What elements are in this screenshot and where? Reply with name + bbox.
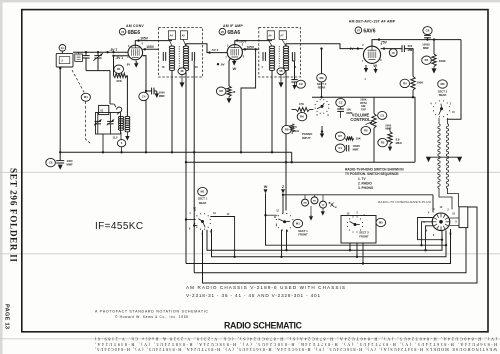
svg-text:M5: M5	[379, 221, 383, 225]
svg-text:5000: 5000	[159, 90, 165, 94]
svg-text:R6: R6	[300, 115, 304, 119]
svg-text:8V: 8V	[127, 63, 131, 67]
svg-text:1000: 1000	[67, 159, 73, 163]
svg-text:1A: 1A	[61, 47, 64, 50]
svg-text:.9V: .9V	[220, 63, 225, 67]
svg-text:6BE6: 6BE6	[128, 30, 141, 36]
svg-text:75V: 75V	[381, 41, 388, 45]
svg-text:3. PHONO: 3. PHONO	[358, 186, 374, 190]
svg-text:PAGE 13: PAGE 13	[4, 304, 10, 329]
svg-text:RADIO-TV INTERCHASSIS PLUG: RADIO-TV INTERCHASSIS PLUG	[378, 200, 432, 204]
svg-text:A PHOTOFACT STANDARD NOTATION: A PHOTOFACT STANDARD NOTATION SCHEMATIC	[95, 309, 208, 313]
svg-text:-5V 7: -5V 7	[110, 48, 118, 52]
svg-text:SET 296 FOLDER II: SET 296 FOLDER II	[9, 168, 19, 262]
svg-text:-5V 2: -5V 2	[211, 48, 219, 52]
svg-text:C6: C6	[49, 161, 53, 165]
svg-text:M3: M3	[319, 76, 323, 80]
svg-text:R5: R5	[364, 129, 368, 133]
svg-text:FRONT: FRONT	[359, 234, 369, 238]
svg-text:SECT 1: SECT 1	[298, 229, 308, 233]
svg-text:100K: 100K	[416, 81, 424, 85]
svg-text:1. TV: 1. TV	[358, 177, 366, 181]
svg-text:105V: 105V	[246, 45, 255, 49]
svg-text:2. RADIO: 2. RADIO	[358, 181, 372, 185]
svg-text:TV POSITION. SWITCH SEQUENCE: TV POSITION. SWITCH SEQUENCE:	[345, 172, 399, 176]
svg-text:W: W	[233, 67, 237, 71]
svg-text:10000: 10000	[422, 42, 430, 46]
svg-text:MMF: MMF	[67, 163, 73, 167]
svg-text:-5V 1: -5V 1	[115, 56, 123, 60]
svg-text:FRONT: FRONT	[298, 233, 308, 237]
svg-text:INPUT: INPUT	[302, 136, 311, 140]
svg-text:V-2318-31 - 35 - 41 - 45 AND V: V-2318-31 - 35 - 41 - 45 AND V-2328-301 …	[186, 293, 320, 298]
svg-text:11.5: 11.5	[112, 136, 118, 140]
svg-text:REAR: REAR	[199, 201, 207, 205]
svg-text:M1: M1	[84, 95, 88, 99]
svg-text:105V: 105V	[140, 36, 149, 40]
svg-text:MMF: MMF	[423, 46, 429, 50]
svg-text:6AV6: 6AV6	[363, 28, 375, 34]
svg-text:REAR: REAR	[439, 93, 447, 97]
svg-text:AM CONV: AM CONV	[126, 24, 144, 28]
svg-text:C3: C3	[380, 113, 384, 117]
svg-text:R7: R7	[338, 134, 342, 138]
svg-text:M1: M1	[296, 222, 300, 226]
svg-text:IF=455KC: IF=455KC	[95, 221, 144, 232]
svg-text:48: 48	[232, 90, 236, 94]
svg-text:SECT 1: SECT 1	[198, 197, 208, 201]
svg-text:5B: 5B	[279, 70, 282, 73]
svg-text:AM RADIO CHASSIS V-2189-6 USE: AM RADIO CHASSIS V-2189-6 USED WITH CHAS…	[186, 285, 345, 290]
svg-text:10K: 10K	[356, 136, 361, 140]
svg-text:AM IF AMP: AM IF AMP	[223, 24, 243, 28]
svg-text:105V: 105V	[239, 39, 248, 43]
svg-text:C6: C6	[426, 29, 430, 33]
svg-text:M3: M3	[440, 82, 444, 86]
svg-text:22K: 22K	[116, 79, 122, 83]
svg-text:C4: C4	[142, 94, 146, 98]
svg-text:330K: 330K	[439, 59, 447, 63]
svg-text:C9: C9	[299, 82, 303, 86]
svg-text:AM DET-AVC-1ST AF AMP: AM DET-AVC-1ST AF AMP	[349, 20, 396, 24]
svg-text:R2: R2	[381, 141, 385, 145]
svg-text:105V: 105V	[146, 45, 155, 49]
svg-text:R8: R8	[285, 128, 289, 132]
svg-text:© Howard W. Sams & Co., Inc.: © Howard W. Sams & Co., Inc. 1955	[115, 315, 188, 319]
svg-text:MEG: MEG	[396, 141, 402, 145]
svg-text:R4: R4	[403, 81, 407, 85]
svg-text:47K: 47K	[299, 102, 304, 106]
svg-text:R2: R2	[219, 89, 223, 93]
svg-text:CONTROL: CONTROL	[350, 117, 371, 122]
svg-text:3B: 3B	[180, 70, 183, 73]
svg-text:RADIO SCHEMATIC: RADIO SCHEMATIC	[224, 320, 303, 330]
svg-text:MMF: MMF	[385, 127, 391, 131]
svg-text:M1: M1	[200, 190, 204, 194]
svg-text:SECT 2: SECT 2	[359, 231, 369, 235]
svg-text:R1: R1	[117, 67, 121, 71]
svg-text:C2: C2	[339, 101, 343, 105]
svg-text:MMF: MMF	[353, 148, 359, 152]
svg-text:SECT 2: SECT 2	[438, 90, 448, 94]
svg-text:TAP: TAP	[361, 108, 366, 112]
svg-text:R1: R1	[425, 58, 429, 62]
svg-text:C1: C1	[338, 146, 342, 150]
svg-text:W: W	[264, 185, 268, 189]
svg-text:MMF: MMF	[159, 94, 165, 98]
svg-text:6BA6: 6BA6	[227, 30, 240, 36]
svg-text:RADIO-TV-PHONO SWITCH SHOWN IN: RADIO-TV-PHONO SWITCH SHOWN IN	[345, 168, 404, 172]
